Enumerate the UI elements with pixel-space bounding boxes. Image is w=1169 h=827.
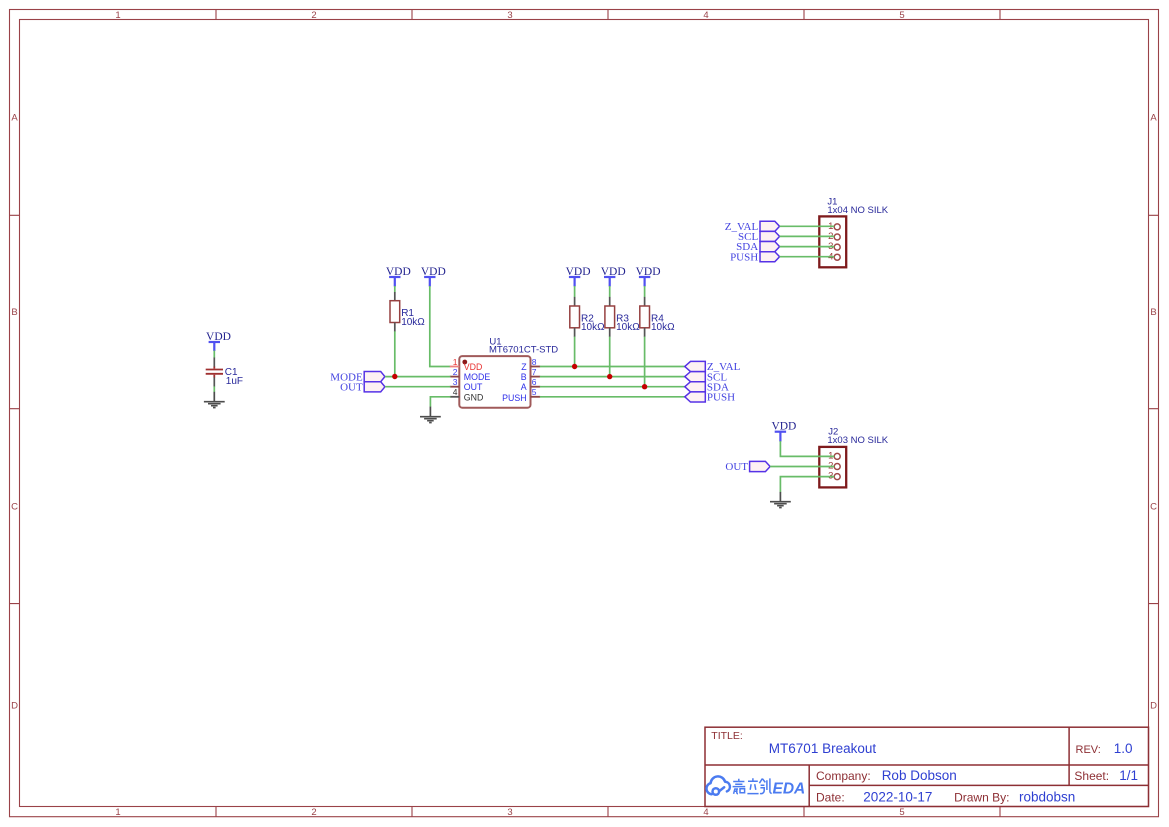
junction dot R3/SCL	[607, 374, 612, 379]
svg-text:1: 1	[115, 10, 120, 21]
svg-text:6: 6	[532, 377, 537, 387]
junction dot R2/Z_VAL	[572, 364, 577, 369]
wire VDD to C1 top	[213, 351, 215, 358]
svg-text:1uF: 1uF	[226, 376, 243, 387]
svg-text:2022-10-17: 2022-10-17	[863, 789, 932, 804]
wire SCL to J1 pin 2	[780, 235, 835, 237]
svg-text:MT6701CT-STD: MT6701CT-STD	[489, 345, 558, 356]
svg-text:VDD: VDD	[566, 266, 591, 278]
svg-text:Rob Dobson: Rob Dobson	[882, 768, 957, 783]
svg-text:1.0: 1.0	[1114, 741, 1133, 756]
U1 pin 1 stub	[450, 366, 460, 368]
logo text JLC (Chuang)	[759, 778, 771, 793]
svg-text:VDD: VDD	[421, 266, 446, 278]
svg-text:10kΩ: 10kΩ	[581, 322, 605, 333]
wire VDD to R3	[609, 286, 611, 297]
svg-text:PUSH: PUSH	[707, 392, 735, 404]
svg-text:4: 4	[703, 807, 708, 818]
wire VDD to R1	[394, 286, 396, 292]
svg-text:1: 1	[453, 357, 458, 367]
svg-text:Date:: Date:	[816, 790, 845, 804]
port PUSH flag (J1)	[760, 252, 780, 262]
svg-text:D: D	[11, 701, 18, 712]
wire VDD to U1 pin 1	[430, 286, 451, 367]
svg-text:Sheet:: Sheet:	[1074, 769, 1109, 783]
J1 pin 1 circle	[834, 224, 840, 230]
power flag VDD (R4)	[639, 277, 650, 287]
svg-text:B: B	[11, 307, 17, 318]
svg-text:2: 2	[311, 807, 316, 818]
svg-text:OUT: OUT	[464, 382, 483, 392]
resistor R4 pin 1	[644, 297, 646, 306]
power flag VDD (R1)	[389, 277, 400, 287]
svg-text:OUT: OUT	[725, 461, 748, 473]
svg-text:MT6701 Breakout: MT6701 Breakout	[769, 741, 877, 756]
capacitor C1 pin 2	[213, 377, 215, 386]
wire VDD to R4	[644, 286, 646, 297]
wire J2 pin 3 to ground	[780, 477, 834, 493]
wire OUT port to U1 pin 3	[385, 386, 451, 388]
svg-text:1/1: 1/1	[1119, 768, 1138, 783]
svg-text:A: A	[521, 382, 527, 392]
J2 pin numbers	[828, 451, 833, 482]
ground (C1)	[204, 392, 225, 408]
svg-text:5: 5	[899, 10, 904, 21]
svg-text:TITLE:: TITLE:	[711, 730, 743, 742]
svg-text:PUSH: PUSH	[730, 251, 758, 263]
wire C1 to ground	[213, 386, 215, 392]
wire VDD to R2	[574, 286, 576, 297]
svg-text:5: 5	[532, 387, 537, 397]
svg-text:VDD: VDD	[464, 362, 483, 372]
svg-text:GND: GND	[464, 392, 484, 402]
svg-text:3: 3	[507, 807, 512, 818]
svg-text:2: 2	[311, 10, 316, 21]
port Z_VAL flag (J1)	[760, 221, 780, 231]
resistor R3	[605, 306, 615, 328]
wire U1 pin 7 to SCL port	[540, 376, 685, 378]
svg-text:1x04 NO SILK: 1x04 NO SILK	[827, 205, 888, 216]
svg-text:B: B	[1150, 307, 1156, 318]
svg-text:C: C	[1150, 502, 1157, 513]
svg-text:10kΩ: 10kΩ	[651, 322, 675, 333]
U1 pin 8 stub	[531, 366, 541, 368]
port SDA flag (right)	[685, 382, 706, 392]
port Z_VAL flag (right)	[685, 361, 706, 371]
svg-text:3: 3	[453, 377, 458, 387]
port PUSH flag (right)	[685, 392, 706, 402]
svg-text:C: C	[11, 502, 18, 513]
svg-text:1: 1	[115, 807, 120, 818]
svg-text:VDD: VDD	[636, 266, 661, 278]
wire MODE port to U1 pin 2	[385, 376, 451, 378]
J1 pin 4 circle	[834, 254, 840, 260]
resistor R3 pin 1	[609, 297, 611, 306]
svg-text:VDD: VDD	[206, 331, 231, 343]
U1 pin 6 stub	[531, 386, 541, 388]
wire U1 pin 6 to SDA port	[540, 386, 685, 388]
svg-text:D: D	[1150, 701, 1157, 712]
svg-text:Drawn By:: Drawn By:	[954, 790, 1009, 804]
svg-text:8: 8	[532, 357, 537, 367]
resistor R2 pin 1	[574, 297, 576, 306]
junction dot R1/MODE	[392, 374, 397, 379]
J1 pin 2 circle	[834, 234, 840, 240]
svg-text:EDA: EDA	[773, 781, 806, 798]
J2 pin 2 circle	[834, 464, 840, 470]
svg-text:PUSH: PUSH	[502, 393, 526, 403]
svg-text:1x03 NO SILK: 1x03 NO SILK	[827, 435, 888, 446]
J1 pin 3 circle	[834, 244, 840, 250]
power flag VDD (J2)	[775, 432, 786, 442]
resistor R4	[640, 306, 650, 328]
logo text JLC (Jia)	[733, 779, 746, 794]
port SCL flag (J1)	[760, 231, 780, 241]
svg-text:VDD: VDD	[601, 266, 626, 278]
svg-text:A: A	[11, 113, 18, 124]
connector J2 box	[819, 447, 846, 488]
power flag VDD (U1)	[424, 277, 435, 287]
svg-text:2: 2	[453, 367, 458, 377]
U1 pin 5 stub	[531, 396, 541, 398]
op-amp U1 body	[459, 356, 530, 408]
wire U1 pin 5 to PUSH port	[540, 396, 685, 398]
resistor R2	[570, 306, 580, 328]
J2 pin 1 circle	[834, 453, 840, 459]
capacitor C1 pin 1	[213, 358, 215, 368]
svg-text:MODE: MODE	[464, 372, 491, 382]
ground (U1)	[420, 407, 441, 423]
resistor R1 pin 2	[394, 323, 396, 332]
wire U1 pin 4 to ground	[430, 397, 450, 407]
wire R2 to Z_VAL net	[574, 337, 576, 367]
resistor R2 pin 2	[574, 328, 576, 337]
wire U1 pin 8 to Z_VAL port	[540, 366, 685, 368]
wire Z_VAL to J1 pin 1	[780, 225, 835, 227]
logo cloud icon	[706, 776, 729, 794]
power flag VDD (R2)	[569, 277, 580, 287]
resistor R3 pin 2	[609, 328, 611, 337]
J1 pin numbers	[828, 221, 833, 262]
svg-text:10kΩ: 10kΩ	[401, 317, 425, 328]
ground (J2)	[770, 492, 791, 508]
resistor R1 pin 1	[394, 292, 396, 301]
svg-text:VDD: VDD	[771, 421, 796, 433]
U1 pin 2 stub	[450, 376, 460, 378]
wire R4 to SDA net	[644, 337, 646, 387]
connector J1 box	[819, 216, 846, 267]
resistor R4 pin 2	[644, 328, 646, 337]
wire VDD to J2 pin 1	[780, 441, 834, 456]
capacitor C1	[206, 367, 223, 378]
port OUT flag (J2)	[750, 461, 771, 471]
resistor R1	[390, 301, 400, 323]
logo text JLC (Li)	[747, 778, 758, 793]
svg-text:Z: Z	[521, 362, 527, 372]
U1 pin 3 stub	[450, 386, 460, 388]
svg-text:REV:: REV:	[1076, 744, 1101, 756]
wire SDA to J1 pin 3	[780, 246, 835, 248]
svg-text:VDD: VDD	[386, 266, 411, 278]
J2 pin 3 circle	[834, 474, 840, 480]
svg-text:7: 7	[532, 367, 537, 377]
port SCL flag (right)	[685, 372, 706, 382]
U1 pin 7 stub	[531, 376, 541, 378]
wire R3 to SCL net	[609, 337, 611, 377]
U1 pin1 marker dot	[462, 360, 467, 365]
port OUT flag	[364, 382, 385, 392]
port MODE flag	[364, 372, 385, 382]
svg-text:robdobsn: robdobsn	[1019, 789, 1075, 804]
wire PUSH to J1 pin 4	[780, 256, 835, 258]
svg-text:OUT: OUT	[340, 381, 363, 393]
power flag VDD (R3)	[604, 277, 615, 287]
junction dot R4/SDA	[642, 384, 647, 389]
wire OUT to J2 pin 2	[770, 466, 834, 468]
svg-text:4: 4	[703, 10, 708, 21]
svg-text:10kΩ: 10kΩ	[616, 322, 640, 333]
port SDA flag (J1)	[760, 242, 780, 252]
power flag VDD (C1)	[209, 342, 220, 351]
svg-text:B: B	[521, 372, 527, 382]
svg-text:3: 3	[507, 10, 512, 21]
svg-text:Company:: Company:	[816, 769, 871, 783]
wire R1 to MODE net	[394, 331, 396, 376]
svg-text:5: 5	[899, 807, 904, 818]
svg-text:A: A	[1150, 113, 1157, 124]
U1 pin 4 stub	[450, 396, 460, 398]
svg-text:4: 4	[453, 387, 458, 397]
